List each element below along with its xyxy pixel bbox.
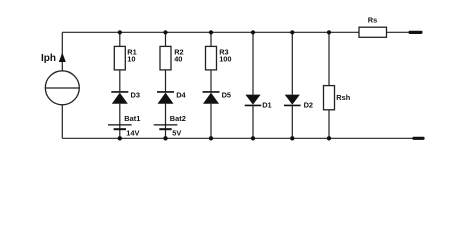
svg-text:Bat2: Bat2: [170, 114, 186, 123]
svg-text:Rs: Rs: [368, 16, 377, 25]
svg-text:Bat1: Bat1: [124, 114, 140, 123]
svg-text:D4: D4: [176, 90, 186, 99]
svg-text:100: 100: [219, 54, 231, 63]
svg-text:D3: D3: [131, 90, 140, 99]
svg-text:Rsh: Rsh: [336, 93, 350, 102]
svg-text:10: 10: [127, 54, 135, 63]
svg-text:D1: D1: [262, 100, 271, 109]
svg-text:D2: D2: [304, 100, 313, 109]
svg-text:Iph: Iph: [41, 53, 56, 64]
svg-text:40: 40: [174, 54, 182, 63]
svg-text:D5: D5: [222, 90, 231, 99]
svg-text:5V: 5V: [172, 129, 181, 138]
svg-text:14V: 14V: [126, 129, 139, 138]
